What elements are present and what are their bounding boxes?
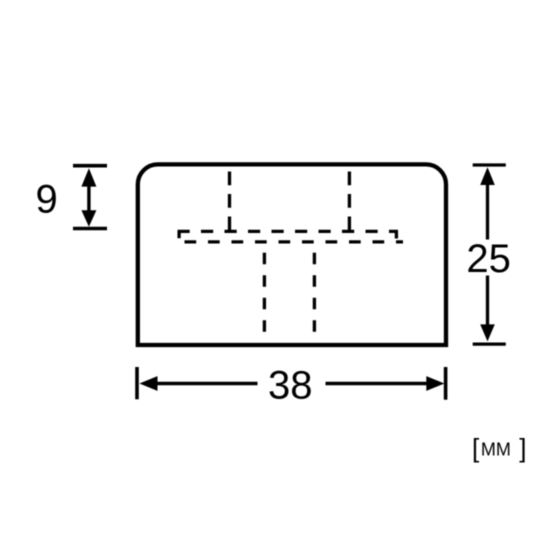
hidden line: lower-left vertical dashed — [263, 253, 266, 332]
hidden line: upper horizontal dashed — [178, 230, 399, 233]
dim 25: top extension tick — [473, 163, 506, 166]
part outline (rounded-top cap cross-section) — [138, 164, 446, 345]
svg-text:9: 9 — [35, 177, 57, 221]
dim 38: left extension tick — [135, 367, 139, 399]
dim 25: dimension line upper stem — [486, 184, 489, 240]
svg-text:MM: MM — [481, 440, 511, 460]
dim 9: top extension tick — [73, 164, 107, 168]
dim 38: dimension line left segment — [157, 382, 258, 385]
dim 38: right arrowhead — [426, 376, 444, 391]
svg-text:[: [ — [472, 433, 480, 463]
dim 25: bottom extension tick — [473, 342, 506, 345]
hidden line: upper-right vertical dashed — [348, 172, 351, 232]
dim 38: dimension line right segment — [326, 382, 428, 385]
hidden line: left corner leg — [177, 231, 180, 238]
dim 38: left arrowhead — [139, 376, 157, 391]
dim 9: bottom extension tick — [73, 227, 107, 231]
dim 9: dimension line stem — [87, 185, 90, 212]
dim 9: down arrowhead — [81, 210, 96, 227]
dim 9: up arrowhead — [81, 168, 96, 186]
dim 38: right extension tick — [444, 367, 448, 400]
hidden line: right corner leg — [395, 231, 398, 238]
svg-text:25: 25 — [466, 237, 511, 281]
dim 25: up arrowhead — [480, 167, 495, 185]
dim 25: dimension line lower stem — [486, 276, 489, 326]
hidden line: lower horizontal dashed — [185, 240, 404, 243]
hidden line: upper-left vertical dashed — [228, 172, 231, 232]
dim 25: down arrowhead — [480, 324, 495, 341]
svg-text:38: 38 — [268, 364, 313, 408]
svg-text:]: ] — [519, 433, 526, 463]
hidden line: lower-right vertical dashed — [313, 253, 316, 332]
